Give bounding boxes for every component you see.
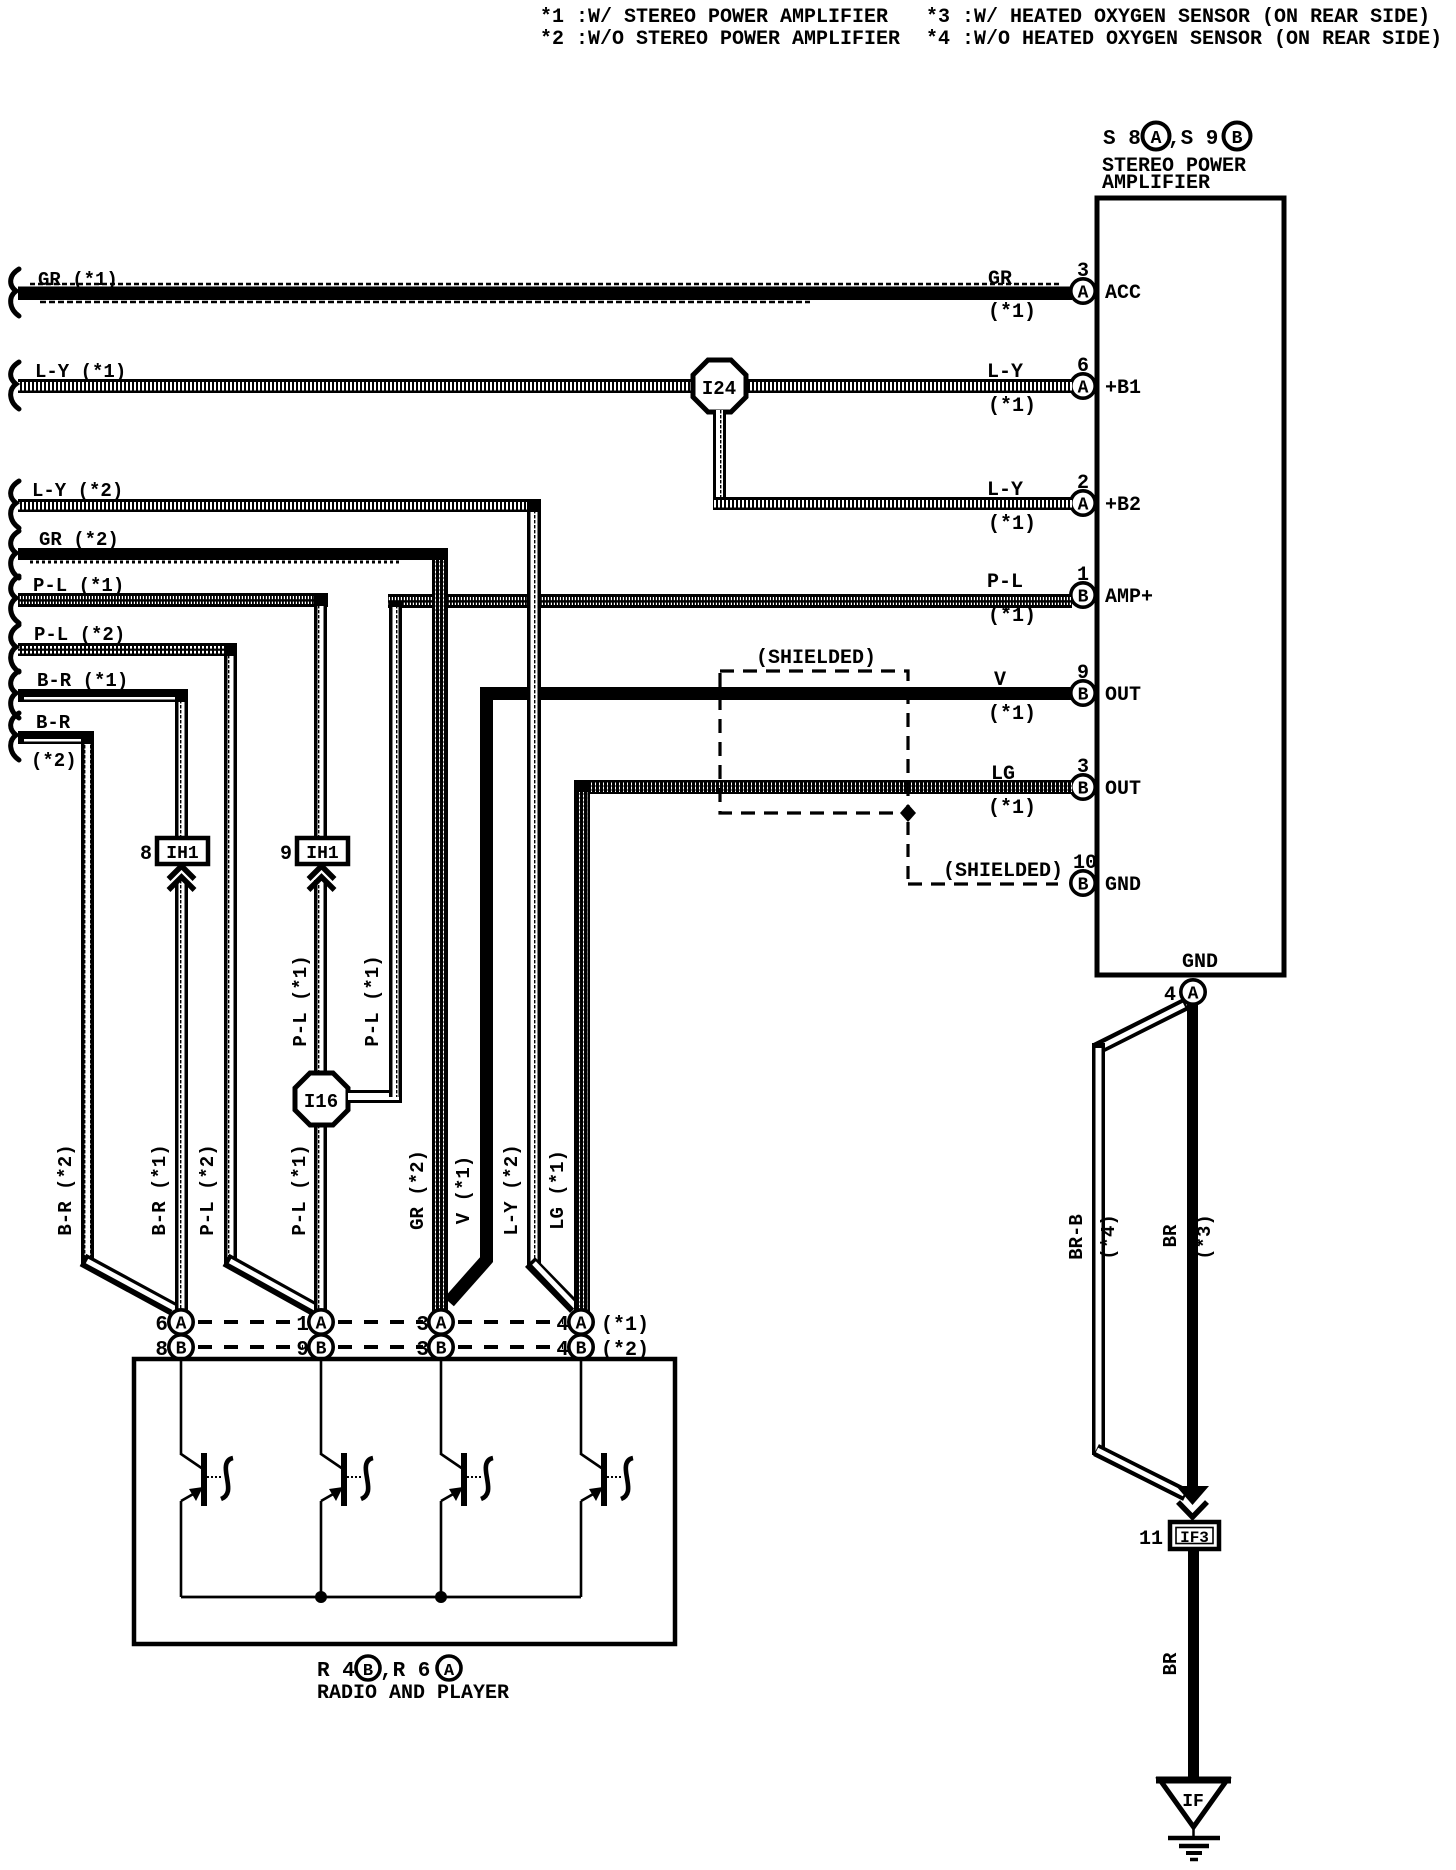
pin 3 B OUT xyxy=(1071,756,1141,801)
wire L-Y (*2) diagonal to pin 4A xyxy=(530,1262,576,1308)
svg-text:A: A xyxy=(444,1662,455,1681)
radio connector pin 9 B xyxy=(296,1335,333,1362)
transistor Q2 xyxy=(321,1359,373,1597)
radio connector row 2: pin 8 B xyxy=(155,1335,193,1362)
svg-text:(SHIELDED): (SHIELDED) xyxy=(756,647,876,670)
wire P-L (*1) vertical upper xyxy=(314,593,327,838)
svg-text:I24: I24 xyxy=(702,378,736,400)
splice I16 xyxy=(295,1073,348,1125)
svg-text:(*1): (*1) xyxy=(988,797,1036,820)
svg-text:P-L (*1): P-L (*1) xyxy=(362,955,384,1046)
radio connector pin 3 A xyxy=(416,1310,453,1337)
svg-text:(*1): (*1) xyxy=(988,395,1036,418)
wire BR (*3) vertical xyxy=(1187,1003,1198,1491)
svg-text:AMPLIFIER: AMPLIFIER xyxy=(1102,172,1210,195)
wire B-R (*1) horizontal xyxy=(18,689,187,702)
svg-text:*3 :W/ HEATED OXYGEN SENSOR (: *3 :W/ HEATED OXYGEN SENSOR (ON REAR SID… xyxy=(926,6,1430,29)
svg-text:LG (*1): LG (*1) xyxy=(547,1150,569,1230)
arrow into IF3 xyxy=(1176,1486,1209,1517)
svg-text:,S 9: ,S 9 xyxy=(1168,128,1218,151)
radio connector pin 4 A xyxy=(556,1310,649,1337)
pin 9 B OUT xyxy=(1071,662,1141,707)
wire BR-B (*4) diagonal lower xyxy=(1096,1450,1186,1495)
wire GR (*2) horizontal xyxy=(18,548,448,562)
shield junction dot xyxy=(900,804,916,822)
dashes row2 seg1 xyxy=(198,1345,303,1349)
wire L-Y branch from I24 to +B2 xyxy=(713,410,1072,510)
svg-text:BR: BR xyxy=(1160,1652,1182,1675)
svg-text:GND: GND xyxy=(1105,874,1141,897)
brace L-Y (*2) xyxy=(11,481,19,528)
svg-text:P-L (*1): P-L (*1) xyxy=(289,1144,311,1235)
svg-text:IH1: IH1 xyxy=(166,844,199,864)
svg-text:1: 1 xyxy=(296,1314,309,1337)
radio connector pin 4 B xyxy=(556,1335,649,1362)
svg-text:9: 9 xyxy=(280,843,292,866)
svg-text:*4 :W/O HEATED OXYGEN SENSOR: *4 :W/O HEATED OXYGEN SENSOR (ON REAR SI… xyxy=(926,28,1442,51)
svg-text:AMP+: AMP+ xyxy=(1105,586,1153,609)
wire BR-B (*4) vertical xyxy=(1092,1043,1105,1455)
svg-text:B: B xyxy=(1232,129,1243,149)
svg-text:(*2): (*2) xyxy=(31,750,77,772)
radio and player box xyxy=(134,1359,675,1644)
svg-text:P-L (*2): P-L (*2) xyxy=(34,624,125,646)
svg-text:GR (*2): GR (*2) xyxy=(39,529,119,551)
pin 4 A GND xyxy=(1164,980,1205,1007)
transistor Q1 xyxy=(181,1359,233,1597)
wire V (*1) to OUT 9 xyxy=(480,687,1072,700)
wire P-L (*2) horizontal xyxy=(18,643,236,656)
wire V (*1) diagonal to pin 3A xyxy=(449,1258,488,1302)
radio connector pin 1 A xyxy=(296,1310,333,1337)
wire P-L (*1) horizontal left xyxy=(18,593,328,607)
svg-text:P-L: P-L xyxy=(987,571,1023,594)
dashes row1 seg2 xyxy=(338,1320,423,1324)
brace P-L (*2) xyxy=(11,625,19,672)
wire B-R (*1) vertical upper xyxy=(175,689,188,838)
svg-text:ACC: ACC xyxy=(1105,282,1141,305)
wire P-L (*1) horizontal right to AMP+ xyxy=(388,594,1072,608)
pin 10 B GND xyxy=(1071,852,1141,897)
svg-text:B-R (*1): B-R (*1) xyxy=(37,670,128,692)
svg-text:(*1): (*1) xyxy=(601,1314,649,1337)
wire B-R (*1) vertical lower xyxy=(175,880,188,1312)
wire LG (*1) vertical xyxy=(574,780,590,1313)
svg-text:(SHIELDED): (SHIELDED) xyxy=(943,860,1063,883)
bus junction node 1 xyxy=(315,1591,327,1603)
svg-text:BR-B: BR-B xyxy=(1066,1214,1088,1260)
radio connector row 1: pin 6 A xyxy=(155,1310,193,1337)
pin 1 B AMP+ xyxy=(1071,564,1153,609)
connector 9 IH1 xyxy=(280,838,348,890)
svg-text:L-Y (*2): L-Y (*2) xyxy=(501,1144,523,1235)
brace B-R (*1) xyxy=(11,671,19,718)
radio connector pin 3 B xyxy=(416,1335,453,1362)
wire P-L (*2) vertical xyxy=(224,643,237,1265)
wire L-Y (*2) vertical xyxy=(527,499,541,1265)
wire P-L (*1) vertical below I16 to pin 1A xyxy=(314,1122,327,1312)
pin 3 A ACC xyxy=(1071,260,1141,305)
dashes row1 seg1 xyxy=(198,1320,303,1324)
svg-text:+B1: +B1 xyxy=(1105,377,1141,400)
svg-text:6: 6 xyxy=(155,1314,168,1337)
svg-text:BR: BR xyxy=(1160,1224,1182,1247)
connector 11 IF3 xyxy=(1139,1522,1219,1551)
svg-text:(*1): (*1) xyxy=(988,513,1036,536)
wire B-R (*2) horizontal xyxy=(18,731,93,744)
svg-text:IF3: IF3 xyxy=(1180,1529,1209,1547)
svg-text:(*1): (*1) xyxy=(988,703,1036,726)
wire B-R (*2) diagonal to pin 6A xyxy=(83,1260,174,1309)
connector label R 4 B , R 6 A xyxy=(317,1656,461,1683)
ground symbol IF xyxy=(1156,1780,1231,1860)
svg-text:P-L (*2): P-L (*2) xyxy=(197,1144,219,1235)
svg-text:OUT: OUT xyxy=(1105,684,1141,707)
svg-text:*1 :W/ STEREO POWER AMPLIFIER: *1 :W/ STEREO POWER AMPLIFIER xyxy=(540,6,888,29)
svg-text:4: 4 xyxy=(556,1314,569,1337)
svg-text:8: 8 xyxy=(140,843,152,866)
svg-text:B-R (*2): B-R (*2) xyxy=(55,1144,77,1235)
wire P-L (*1) loop from I16 right xyxy=(348,601,402,1103)
svg-text:L-Y (*2): L-Y (*2) xyxy=(32,480,123,502)
svg-text:*2 :W/O STEREO POWER AMPLIFIER: *2 :W/O STEREO POWER AMPLIFIER xyxy=(540,28,900,51)
svg-text:GR (*1): GR (*1) xyxy=(38,269,118,291)
brace GR (*1) xyxy=(11,269,19,316)
svg-text:P-L (*1): P-L (*1) xyxy=(290,955,312,1046)
svg-text:11: 11 xyxy=(1139,1528,1163,1551)
svg-text:OUT: OUT xyxy=(1105,778,1141,801)
svg-text:(*3): (*3) xyxy=(1194,1214,1216,1260)
svg-text:GND: GND xyxy=(1182,951,1218,974)
emitter bus wire xyxy=(181,1596,581,1599)
wire GR (*1) to ACC xyxy=(18,284,1072,302)
connector 8 IH1 xyxy=(140,838,208,890)
svg-text:(*1): (*1) xyxy=(988,301,1036,324)
svg-text:IF: IF xyxy=(1182,1792,1204,1812)
shield dashed drain to GND pin xyxy=(908,822,1058,884)
wire B-R (*2) vertical xyxy=(81,731,94,1265)
svg-text:RADIO AND PLAYER: RADIO AND PLAYER xyxy=(317,1682,509,1705)
wire BR to ground xyxy=(1188,1549,1199,1781)
brace B-R (*2) xyxy=(11,713,19,760)
transistor Q4 xyxy=(581,1359,633,1597)
dashes row2 seg3 xyxy=(458,1345,563,1349)
svg-text:R 4: R 4 xyxy=(317,1660,355,1683)
svg-text:(*1): (*1) xyxy=(988,605,1036,628)
wire P-L (*2) diagonal to pin 1A xyxy=(226,1260,315,1309)
wire LG (*1) to OUT 3 xyxy=(574,780,1072,794)
connector title S 8 A , S 9 B xyxy=(1103,123,1251,152)
svg-text:GR (*2): GR (*2) xyxy=(407,1150,429,1230)
wire P-L (*1) vertical through to I16 xyxy=(314,880,327,1076)
transistor Q3 xyxy=(441,1359,493,1597)
svg-text:L-Y (*1): L-Y (*1) xyxy=(35,361,126,383)
svg-text:B-R (*1): B-R (*1) xyxy=(149,1144,171,1235)
svg-text:S 8: S 8 xyxy=(1103,128,1141,151)
svg-text:B: B xyxy=(363,1662,373,1681)
wire BR-B (*4) branch diagonal upper xyxy=(1096,1004,1186,1049)
splice I24 xyxy=(693,360,746,412)
svg-text:P-L (*1): P-L (*1) xyxy=(33,575,124,597)
svg-text:3: 3 xyxy=(416,1314,429,1337)
svg-text:(*4): (*4) xyxy=(1098,1214,1120,1260)
wire L-Y (*2) horizontal xyxy=(18,499,541,512)
svg-text:I16: I16 xyxy=(304,1091,338,1113)
brace L-Y (*1) xyxy=(11,362,19,409)
stereo power amplifier box xyxy=(1097,198,1284,975)
brace P-L (*1) xyxy=(11,576,19,623)
svg-text:+B2: +B2 xyxy=(1105,494,1141,517)
wire GR (*2) vertical xyxy=(432,548,448,1313)
shielded dashed box xyxy=(720,671,908,813)
svg-text:,R 6: ,R 6 xyxy=(380,1660,430,1683)
dashes row2 seg2 xyxy=(338,1345,423,1349)
dashes row1 seg3 xyxy=(458,1320,563,1324)
svg-text:A: A xyxy=(1151,129,1162,149)
svg-text:V (*1): V (*1) xyxy=(453,1156,475,1224)
svg-text:IH1: IH1 xyxy=(306,844,339,864)
pin 6 A +B1 xyxy=(1071,355,1141,400)
bus junction node 2 xyxy=(435,1591,447,1603)
pin 2 A +B2 xyxy=(1071,472,1141,517)
wire V (*1) vertical xyxy=(480,687,493,1262)
svg-text:B-R: B-R xyxy=(36,712,71,734)
brace GR (*2) xyxy=(11,531,19,578)
wire L-Y (*1) to +B1 xyxy=(18,379,1072,393)
